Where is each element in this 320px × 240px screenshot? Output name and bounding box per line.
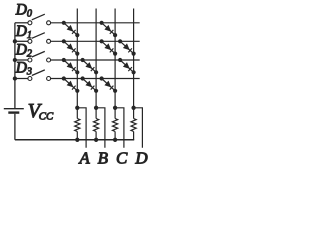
junction column A / output tap (75, 106, 79, 110)
wire: row 3 line (51, 78, 140, 80)
svg-text:3: 3 (26, 67, 32, 78)
diode row D3 to column A (62, 76, 80, 93)
wire: column B vertical (95, 9, 97, 108)
svg-text:0: 0 (27, 8, 32, 19)
wire: column A vertical (76, 9, 78, 108)
switch D2 left contact (28, 58, 32, 62)
svg-text:D: D (15, 41, 27, 58)
svg-text:CC: CC (39, 110, 54, 122)
switch D3 left contact (28, 77, 32, 81)
junction R2 / bottom rail (94, 138, 98, 142)
svg-text:D: D (15, 23, 27, 40)
switch D1 right contact (47, 39, 51, 43)
switch D3 lever (32, 70, 45, 76)
wire: rail to switch S3 (15, 78, 28, 80)
wire: rail to switch S2 (15, 59, 28, 61)
diode row D1 to column A (62, 39, 80, 56)
battery VCC negative plate (8, 111, 19, 113)
wire: row 1 line (51, 40, 140, 42)
junction column C / output tap (113, 106, 117, 110)
switch D1 lever (32, 33, 45, 39)
diode row D3 to column C (100, 76, 118, 93)
wire: column C vertical (114, 9, 116, 108)
wire: battery negative lead to bottom rail (14, 114, 16, 140)
switch D0 right contact (47, 21, 51, 25)
diode row D1 to column C (100, 39, 118, 56)
junction rail-row3 (13, 76, 17, 80)
wire: rail to switch S0 (15, 22, 28, 24)
svg-text:D: D (15, 60, 27, 77)
wire: row 2 line (51, 59, 140, 61)
wire: VCC left rail (14, 23, 16, 109)
wire: output C tap (115, 108, 124, 148)
svg-text:A: A (78, 148, 90, 166)
svg-text:2: 2 (27, 48, 32, 59)
switch D3 right contact (47, 77, 51, 81)
diode row D0 to column C (100, 21, 118, 38)
switch D1 left contact (28, 39, 32, 43)
junction column D / output tap (131, 106, 135, 110)
diode row D3 to column B (81, 76, 99, 93)
svg-text:C: C (116, 148, 128, 166)
diode row D2 to column A (62, 58, 80, 75)
switch D2 lever (32, 51, 45, 57)
switch D0 lever (32, 14, 45, 20)
wire: output D tap (134, 108, 143, 148)
wire: bottom ground rail (15, 139, 134, 141)
junction R1 / bottom rail (75, 138, 79, 142)
wire: column D vertical (133, 9, 135, 108)
resistor R1 column A (75, 108, 80, 140)
junction R3 / bottom rail (113, 138, 117, 142)
wire: output A tap (77, 108, 86, 148)
diode row D2 to column D (118, 58, 136, 75)
resistor R4 column D (131, 108, 136, 140)
wire: rail to switch S1 (15, 40, 28, 42)
switch D0 left contact (28, 21, 32, 25)
svg-text:B: B (98, 148, 109, 166)
resistor R3 column C (113, 108, 118, 140)
svg-text:D: D (134, 148, 148, 166)
resistor R2 column B (94, 108, 99, 140)
junction rail-row1 (13, 39, 17, 43)
junction rail-row2 (13, 58, 17, 62)
wire: row 0 line (51, 22, 140, 24)
battery VCC positive plate (4, 108, 24, 110)
junction column B / output tap (94, 106, 98, 110)
diode row D1 to column D (118, 39, 136, 56)
svg-text:D: D (15, 1, 27, 18)
diode row D0 to column A (62, 21, 80, 38)
wire: output B tap (96, 108, 105, 148)
switch D2 right contact (47, 58, 51, 62)
svg-text:1: 1 (27, 30, 32, 41)
diode row D2 to column B (81, 58, 99, 75)
